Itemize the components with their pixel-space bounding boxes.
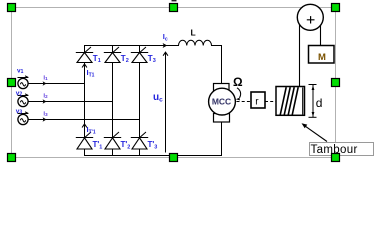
svg-text:v2: v2 <box>16 90 23 98</box>
svg-text:i2: i2 <box>43 93 48 99</box>
svg-text:MCC: MCC <box>212 97 231 107</box>
svg-text:v1: v1 <box>17 67 24 75</box>
svg-text:Ω: Ω <box>233 75 243 89</box>
svg-text:M: M <box>318 52 326 63</box>
svg-text:L: L <box>191 28 196 38</box>
svg-text:v3: v3 <box>16 108 23 116</box>
svg-text:d: d <box>316 96 323 110</box>
svg-text:i3: i3 <box>43 111 48 117</box>
svg-text:i1: i1 <box>43 75 48 81</box>
